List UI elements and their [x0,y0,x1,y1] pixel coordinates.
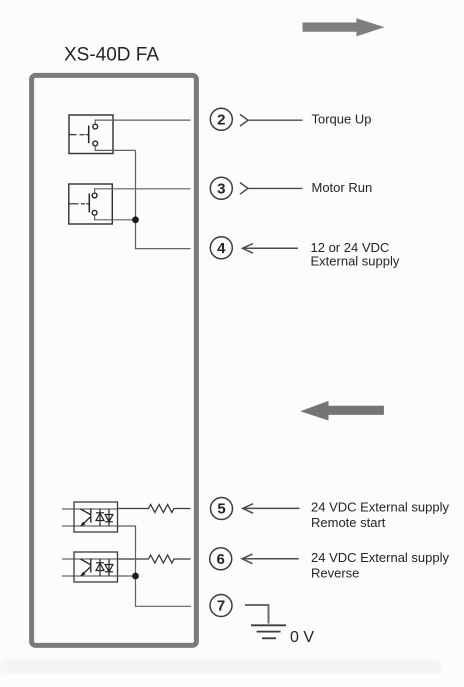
wire PC1 cathode rail to 0V bus [118,526,192,606]
optocoupler PC1 rails [74,509,118,526]
optocoupler PC2 phototransistor [80,558,91,576]
pin 4 circle [210,237,232,259]
relay K1 terminal bottom [93,141,98,146]
arrow into pin 4 [243,244,299,254]
svg-text:Torque Up: Torque Up [312,111,372,126]
wire pin 2 to label [249,119,303,121]
svg-text:7: 7 [217,598,225,615]
wire K2 bottom terminal to bus junction [95,215,136,220]
optocoupler PC2 rails [74,559,118,576]
wire PC2 cathode rail to bus [118,575,136,577]
junction dot bus/PC2 [132,573,139,580]
junction dot bus/K2 [132,216,139,223]
scan smudge band bottom [0,659,442,674]
resistor R2 [118,555,191,563]
arrow into pin 6 [242,554,299,564]
relay K1 terminal top [93,124,98,129]
wire pin 7 to ground [245,605,269,624]
relay K2 terminal bottom [92,210,97,215]
svg-text:0 V: 0 V [290,629,314,646]
chevron pin 3 output [240,183,248,195]
pin 7 circle [210,595,232,617]
relay K2 terminal top [92,193,97,198]
arrow into pin 5 [243,504,300,514]
relay K1 contact blade [88,126,90,144]
wire common bus K1/K2 to pin 4 [136,150,191,248]
svg-text:Remote start: Remote start [311,515,386,530]
pin 5 circle [211,498,233,520]
pin 3 circle [210,177,232,199]
svg-text:3: 3 [217,180,225,197]
wire K1 top terminal to pin 2 [95,120,190,124]
svg-text:6: 6 [217,551,225,568]
resistor R1 [118,505,191,513]
svg-text:5: 5 [217,501,225,518]
arrow left (middle) [300,401,384,421]
relay contact K1 box [69,115,113,154]
optocoupler PC2 bidirectional LED [96,559,113,576]
relay contact K2 box [69,184,113,224]
arrow right (top) [303,18,385,36]
chevron pin 2 output [240,114,248,126]
svg-text:4: 4 [217,240,226,257]
enclosure border XS-40D FA [32,75,197,645]
svg-text:Reverse: Reverse [311,565,359,580]
svg-text:24 VDC External supply: 24 VDC External supply [311,550,450,565]
pin 6 circle [210,548,232,570]
svg-text:External supply: External supply [311,254,400,269]
pin 2 circle [210,108,232,130]
wire K1 bottom terminal to bus [95,146,135,150]
wire pin 3 to label [249,187,303,189]
optocoupler PC1 box [74,502,118,532]
svg-text:Motor Run: Motor Run [312,180,373,195]
optocoupler PC1 input stubs [62,509,74,526]
relay K2 actuator line [69,203,89,205]
svg-text:24 VDC External supply: 24 VDC External supply [311,499,450,514]
optocoupler PC2 box [74,552,118,582]
relay K2 contact blade [88,194,90,213]
optocoupler PC2 input stubs [62,559,74,576]
wire K2 top terminal to pin 3 [95,189,191,193]
svg-text:2: 2 [217,111,225,128]
optocoupler PC1 phototransistor [80,508,91,526]
svg-text:XS-40D FA: XS-40D FA [64,45,159,66]
relay K1 actuator line [70,134,89,136]
optocoupler PC1 bidirectional LED [96,509,113,526]
ground symbol [251,625,286,638]
